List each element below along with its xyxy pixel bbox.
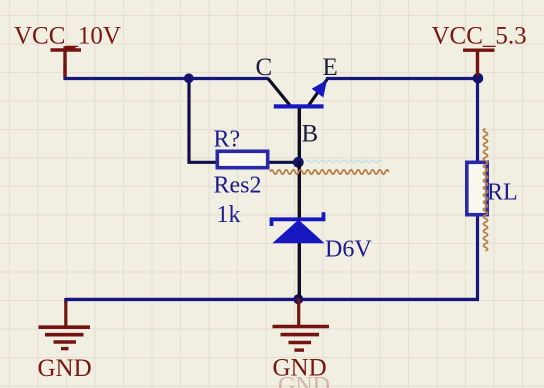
- compile squiggle orange at RL: [483, 129, 487, 251]
- ground symbol center: [273, 298, 330, 350]
- wire: bottom ground bus: [66, 298, 479, 301]
- transistor Q1 collector pin: [268, 79, 291, 107]
- svg-text:RL: RL: [487, 180, 518, 206]
- junction dot node B: [293, 157, 304, 168]
- power port VCC_10V bar: [51, 48, 82, 51]
- svg-text:Res2: Res2: [214, 173, 262, 199]
- svg-text:1k: 1k: [217, 202, 241, 228]
- transistor Q1 base pin: [298, 107, 301, 163]
- wire: top bus from VCC_10V corner to transistor collector: [64, 77, 269, 80]
- wire: RL bottom to bottom bus corner: [476, 215, 479, 299]
- zener diode D? anode triangle: [272, 220, 324, 244]
- wire: left drop from junction to resistor R?: [189, 77, 216, 162]
- compile squiggle orange at node B wire: [270, 170, 389, 174]
- wire: resistor R? right pin to node B: [269, 161, 299, 164]
- junction dot at VCC_5.3: [473, 73, 484, 84]
- svg-text:VCC_10V: VCC_10V: [14, 23, 121, 50]
- svg-text:B: B: [302, 121, 319, 148]
- junction dot at VCC_10V bus: [184, 73, 194, 83]
- svg-text:D6V: D6V: [325, 237, 372, 263]
- power port VCC_5.3 bar: [463, 49, 495, 52]
- svg-text:VCC_5.3: VCC_5.3: [432, 23, 527, 50]
- wire: right vertical VCC_5.3 down to RL: [476, 77, 479, 162]
- wire: VCC_10V vertical drop: [63, 64, 66, 80]
- transistor Q1 base bar: [274, 104, 324, 108]
- svg-text:C: C: [256, 54, 273, 81]
- svg-text:GND: GND: [278, 373, 330, 388]
- zener diode D? cathode bar: [272, 212, 324, 226]
- power port VCC_10V pin: [63, 50, 66, 77]
- svg-text:R?: R?: [214, 127, 241, 153]
- ground symbol left: [39, 302, 91, 349]
- resistor R? body: [217, 151, 267, 167]
- zener diode D? pin top: [298, 161, 301, 220]
- wire: bottom-left corner drop to GND: [64, 298, 67, 303]
- resistor RL body: [467, 162, 487, 214]
- compile squiggle cyan at node B: [306, 160, 382, 163]
- wire: emitter bus to VCC_5.3 junction: [326, 77, 479, 80]
- svg-text:GND: GND: [38, 355, 92, 382]
- power port VCC_5.3 pin: [476, 50, 479, 76]
- transistor Q1 emitter pin: [309, 80, 328, 106]
- zener diode D? pin bottom: [298, 242, 301, 300]
- transistor Q1 emitter arrow: [312, 80, 327, 98]
- junction dot bottom bus: [293, 294, 303, 304]
- svg-text:E: E: [323, 54, 338, 81]
